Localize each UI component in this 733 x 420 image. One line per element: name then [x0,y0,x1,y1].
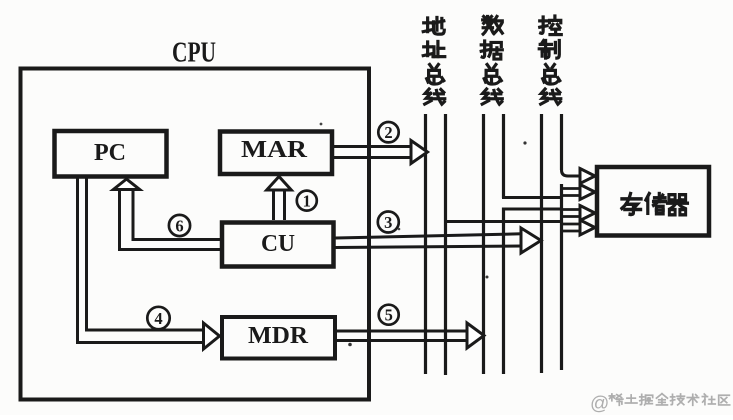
wire addr2-to-connector [444,220,562,223]
block CU [222,223,334,267]
node circled 5 [379,305,399,325]
svg-text:5: 5 [385,306,393,325]
memory arrow 3 [561,206,595,221]
svg-text:4: 4 [154,309,162,328]
control bus line 1 [540,114,543,373]
wire 3: CU to control bus [336,228,542,253]
node circled 1 [297,191,317,211]
block MAR [220,132,332,175]
svg-text:MAR: MAR [241,137,308,163]
wire control-bus to memory arrow 1 [562,168,596,184]
svg-text:6: 6 [175,216,183,235]
wire 1: CU up to MAR [267,177,292,221]
address bus line 2 [444,114,447,375]
svg-text:CPU: CPU [172,38,216,69]
memory arrow 4 [561,220,595,235]
svg-text:1: 1 [303,191,311,210]
wire 4: PC down and right to MDR [78,179,220,350]
data bus line 2 lower [502,208,505,375]
data bus line 1 [482,114,485,374]
CPU outer box [21,69,370,400]
svg-text:2: 2 [384,123,392,142]
label control bus (kong zhi zong xian) [539,16,561,104]
wire 5: MDR to data bus [337,323,484,348]
label cun-chu-qi (memory) [622,194,688,215]
node circled 6 [169,215,190,236]
node circled 4 [147,307,169,329]
label address bus (di zhi zong xian) [423,17,445,104]
data bus line 2 upper [502,114,505,198]
scan specks [320,123,527,347]
label data bus (shu ju zong xian) [481,16,502,104]
block MDR [222,317,335,359]
svg-text:PC: PC [94,140,126,166]
node circled 2 [378,122,398,142]
wire 2: MAR to address bus [334,141,428,164]
svg-text:@: @ [590,394,609,415]
wire 6: CU left and up to PC [113,179,220,250]
address bus line 1 [424,114,427,374]
block memory [597,167,709,236]
wire data2-to-connector lower [502,208,562,211]
control bus line 2 lower [560,184,563,370]
svg-text:MDR: MDR [248,323,309,349]
watermark [590,394,730,415]
svg-text:CU: CU [261,231,295,257]
svg-text:3: 3 [384,213,392,232]
block PC [55,131,167,177]
node circled 3 [378,212,399,233]
label CPU [172,38,216,69]
control bus line 2 upper [560,114,563,170]
wire data2-to-connector upper [502,196,562,199]
memory arrow 2 [561,185,595,200]
